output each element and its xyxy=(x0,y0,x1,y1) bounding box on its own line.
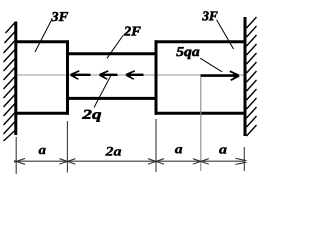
label 2q xyxy=(82,110,101,122)
right block (large section) xyxy=(155,40,246,114)
force arrow 5qa (points right) xyxy=(201,71,240,80)
dim arrowhead left end (points left) xyxy=(14,158,25,164)
right wall xyxy=(244,17,247,136)
left wall hatching xyxy=(4,22,16,141)
label 3F left xyxy=(51,12,68,21)
label 2F xyxy=(124,27,141,36)
dimension line xyxy=(16,160,245,162)
distributed load arrow 3 (rightmost, points left) xyxy=(126,71,144,79)
extension line at x=a xyxy=(66,121,68,173)
leader for 5qa xyxy=(200,58,222,72)
extension line at step xyxy=(155,119,157,172)
dim arrowhead right end (points right) xyxy=(236,158,247,164)
leader for 3F left xyxy=(35,21,51,52)
distributed load arrow 1 (leftmost, points left) xyxy=(70,71,91,79)
extension line at left wall xyxy=(15,137,17,174)
distributed load arrow 2 (middle, points left) xyxy=(99,71,118,79)
extension line at right wall xyxy=(243,147,245,171)
extension line mid right block (gray) xyxy=(200,77,202,171)
dim label a (third span) xyxy=(175,147,182,153)
right wall hatching xyxy=(247,17,257,136)
dim label a (fourth span) xyxy=(219,147,226,153)
middle bar (narrow section) xyxy=(67,54,157,99)
label 5qa xyxy=(176,47,199,59)
dim arrowheads at mid tick (cross star) xyxy=(193,159,209,165)
centerline (axis) xyxy=(16,74,245,76)
leader for 2F xyxy=(107,36,123,59)
dim arrowheads at x=a tick (cross star) xyxy=(59,159,75,165)
left wall xyxy=(14,22,17,136)
leader for 3F right xyxy=(217,20,234,49)
leader for 2q xyxy=(94,75,111,107)
dim label 2a xyxy=(105,147,121,156)
left block (large section) xyxy=(15,40,69,114)
dim arrowheads at step tick (cross star) xyxy=(148,159,164,165)
dim label a (first span) xyxy=(39,148,46,154)
label 3F right xyxy=(202,11,217,20)
